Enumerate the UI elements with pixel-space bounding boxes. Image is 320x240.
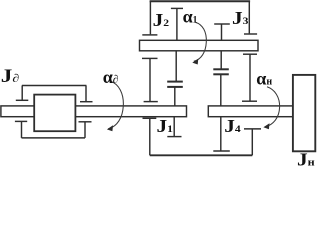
motor housing left wall + bearing caps xyxy=(15,86,28,138)
gear J3 upper half (cap + spoke) xyxy=(214,24,230,40)
svg-text:α∂: α∂ xyxy=(103,67,119,87)
label alpha_1 xyxy=(183,7,198,27)
label J2 xyxy=(153,12,169,31)
svg-text:αн: αн xyxy=(256,69,272,89)
shaft 1 (motor shaft) xyxy=(1,106,187,117)
svg-text:J3: J3 xyxy=(232,10,248,29)
motor housing top xyxy=(22,85,87,87)
gear J2 lower half (spoke + rim) xyxy=(167,51,183,82)
motor housing bottom xyxy=(22,137,86,139)
motor rotor body xyxy=(34,95,75,132)
frame top rail xyxy=(150,0,251,2)
arrowhead alpha_n xyxy=(263,123,269,129)
rotation arrow alpha_n arc xyxy=(265,87,280,127)
gear J3 lower half (spoke + rim) xyxy=(213,51,229,70)
shaft 3 (output shaft) xyxy=(208,106,293,117)
bearing left middle (below shaft 2, I-beam to shaft 1) xyxy=(142,58,158,101)
gear J2 upper half (cap + spoke) xyxy=(171,8,183,40)
bearing support left upper (above shaft 2) xyxy=(142,1,157,35)
svg-text:J1: J1 xyxy=(157,118,173,137)
label alpha_n xyxy=(256,69,272,89)
arrowhead alpha_1 xyxy=(192,59,198,65)
bearing right lower (below shaft 3 to base) xyxy=(244,129,261,155)
gear J4 lower half (spoke + cap) xyxy=(213,117,230,151)
shaft 2 (intermediate) xyxy=(140,40,259,51)
rotation arrow alpha_1 arc xyxy=(194,22,207,61)
gear J1 upper half (rim + spoke) xyxy=(167,87,183,106)
label J3 xyxy=(232,10,248,29)
bearing left lower (below shaft 1 to base) xyxy=(143,118,157,155)
label J_d (motor inertia) xyxy=(1,65,20,87)
svg-text:Jн: Jн xyxy=(297,151,315,167)
label alpha_d xyxy=(103,67,119,87)
bearing support right upper (above shaft 2) xyxy=(244,1,257,34)
svg-text:α1: α1 xyxy=(183,7,198,27)
label J4 xyxy=(224,118,241,137)
gear J1 lower half (spoke + cap) xyxy=(167,117,181,137)
label J1 xyxy=(157,118,173,137)
svg-text:J4: J4 xyxy=(224,118,241,137)
rotation arrow alpha_d arc xyxy=(108,81,123,129)
svg-text:J2: J2 xyxy=(153,12,169,31)
label J_n (load inertia) xyxy=(297,151,315,170)
bearing right middle (below shaft 2, I-beam to shaft 3) xyxy=(242,54,257,101)
motor housing right wall + bearing caps xyxy=(79,86,93,138)
frame bottom rail xyxy=(150,154,253,156)
arrowhead alpha_d xyxy=(107,125,113,131)
load block Jn xyxy=(293,75,315,151)
svg-text:J∂: J∂ xyxy=(1,65,20,87)
gear J4 upper half (rim + spoke) xyxy=(213,74,229,106)
